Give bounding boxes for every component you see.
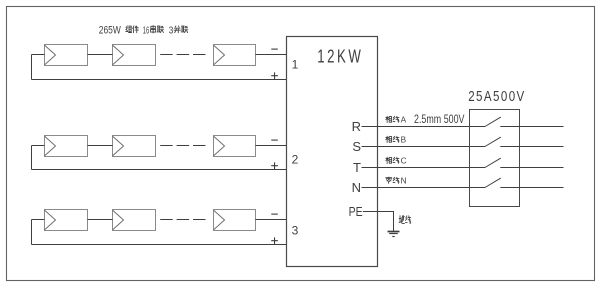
- minus terminal label, string 3: [271, 213, 278, 215]
- wire: pole N output line: [500, 187, 563, 189]
- wire: S output to breaker pole: [362, 146, 486, 148]
- PV module PV3-2: [113, 210, 156, 231]
- svg-text:C: C: [401, 157, 407, 166]
- wire: string 3 dashed series continuation: [160, 219, 206, 221]
- circuit breaker QF1 25A500V (4-pole): [470, 110, 520, 207]
- svg-text:16: 16: [143, 25, 150, 36]
- wire: string 3 negative lead to inverter input 3: [256, 219, 287, 221]
- wire: pole B output line: [500, 146, 563, 148]
- net label 相线C: [386, 157, 407, 166]
- net label 零线N: [386, 177, 407, 186]
- wire: string 1 negative stub to left drop: [32, 54, 45, 56]
- wire: string 2 dashed series continuation: [160, 145, 206, 147]
- svg-text:2: 2: [292, 152, 299, 166]
- svg-text:25A500V: 25A500V: [468, 89, 526, 105]
- wire: N output to breaker pole: [362, 187, 486, 189]
- wire: string 1 dashed series continuation: [160, 54, 206, 56]
- wire: string 2 negative lead to inverter input 2: [256, 145, 287, 147]
- wire: string 2 negative stub to left drop: [32, 145, 45, 147]
- svg-text:265W: 265W: [99, 25, 121, 37]
- net label 相线A: [386, 116, 407, 125]
- minus terminal label, string 1: [271, 48, 278, 50]
- net label 相线B: [386, 136, 407, 145]
- PV module PV1-1: [45, 45, 88, 66]
- svg-text:A: A: [401, 116, 407, 125]
- PV module PV3-1: [45, 210, 88, 231]
- wire: string 1 module 1 to module 2: [88, 54, 113, 56]
- minus terminal label, string 2: [271, 139, 278, 141]
- wire: string 2 positive return to inverter input 2: [32, 169, 287, 171]
- PV module PV1-2: [113, 45, 156, 66]
- wire: string 1 positive return to inverter input 1: [32, 79, 287, 81]
- wire: string 1 left vertical drop: [31, 55, 33, 80]
- svg-text:N: N: [352, 180, 361, 195]
- switch pole N (blade): [485, 178, 501, 187]
- PV module PV2-1: [45, 136, 88, 157]
- wire: string 2 module 1 to module 2: [88, 145, 113, 147]
- inverter U1 (12KW grid-tie inverter): [287, 37, 378, 267]
- svg-text:PE: PE: [349, 204, 363, 219]
- wire: string 3 negative stub to left drop: [32, 219, 45, 221]
- PV module PV1-3: [214, 45, 256, 66]
- annotation: 265W 组件 16串联 3并联: [99, 25, 188, 37]
- wire: pole A output line: [500, 126, 563, 128]
- switch pole C (blade): [485, 158, 501, 167]
- wire: R output to breaker pole: [362, 126, 486, 128]
- net label 地线 (earth wire): [399, 216, 411, 224]
- svg-text:3: 3: [292, 223, 299, 237]
- svg-text:T: T: [353, 160, 361, 175]
- switch pole A (blade): [485, 117, 501, 126]
- svg-text:B: B: [401, 136, 407, 145]
- plus terminal label, string 3: [271, 237, 278, 244]
- wire: pole C output line: [500, 167, 563, 169]
- wire: PE to earth: [363, 212, 394, 232]
- plus terminal label, string 1: [271, 72, 278, 79]
- svg-text:N: N: [401, 177, 407, 186]
- wire: string 3 positive return to inverter input 3: [32, 244, 287, 246]
- wire: string 1 negative lead to inverter input 1: [256, 54, 287, 56]
- wire: string 3 module 1 to module 2: [88, 219, 113, 221]
- svg-text:3: 3: [169, 25, 174, 36]
- wire: string 3 left vertical drop: [31, 220, 33, 245]
- wire: T output to breaker pole: [362, 167, 486, 169]
- PV module PV2-2: [113, 136, 156, 157]
- PV module PV2-3: [214, 136, 256, 157]
- wire: string 2 left vertical drop: [31, 146, 33, 170]
- switch pole B (blade): [485, 137, 501, 146]
- svg-text:2.5mm 500V: 2.5mm 500V: [414, 113, 465, 126]
- svg-text:S: S: [352, 139, 361, 154]
- plus terminal label, string 2: [271, 162, 278, 169]
- svg-text:1: 1: [292, 57, 299, 71]
- PV module PV3-3: [214, 210, 256, 231]
- svg-text:12KW: 12KW: [317, 46, 363, 67]
- svg-text:R: R: [352, 119, 361, 134]
- ground (earth symbol): [388, 232, 400, 237]
